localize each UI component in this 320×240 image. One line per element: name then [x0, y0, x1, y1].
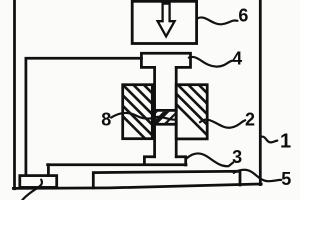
svg-text:6: 6 [238, 6, 248, 26]
svg-text:1: 1 [280, 130, 291, 152]
svg-text:3: 3 [232, 147, 242, 167]
svg-text:8: 8 [101, 110, 111, 130]
svg-text:5: 5 [281, 169, 291, 189]
svg-text:2: 2 [245, 110, 255, 130]
svg-text:4: 4 [232, 49, 242, 69]
